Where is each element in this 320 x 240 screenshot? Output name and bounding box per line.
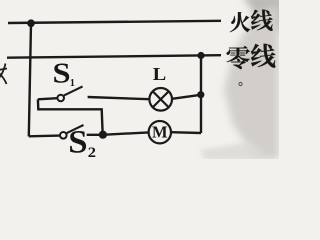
switch S1 lever	[64, 86, 83, 95]
page background	[0, 0, 279, 159]
junction dot on neutral line	[197, 52, 204, 59]
stray mark: small circle right side	[239, 82, 242, 85]
svg-text:S: S	[53, 58, 71, 89]
junction dot on live line	[27, 19, 35, 27]
label lingxian char xian	[251, 44, 276, 68]
wire: junction to motor M	[103, 132, 149, 134]
switch S2 contact circle	[60, 132, 67, 139]
svg-text:2: 2	[88, 145, 96, 159]
svg-text:M: M	[152, 123, 168, 142]
wire: S1 moving contact stub	[38, 98, 57, 99]
wire: lamp L to right vertical	[172, 95, 201, 99]
junction dot S1 bypass / S2 output	[99, 131, 107, 139]
switch S2 lever	[67, 125, 84, 133]
scan shadow top-right corner	[242, 0, 285, 34]
wire: S1 fixed contact to lamp L	[88, 97, 150, 99]
lamp L symbol (circle with X)	[149, 88, 172, 111]
scan mottling bottom	[200, 142, 266, 161]
wire: right vertical from neutral line	[200, 56, 202, 134]
wire: S2 fixed contact to junction	[87, 134, 103, 136]
label huoxian char xian	[251, 10, 273, 31]
scan shadow right diagonal band	[224, 5, 279, 159]
junction dot lamp branch / right vertical	[197, 91, 204, 98]
wire: motor M to right vertical	[171, 131, 201, 134]
svg-text:L: L	[153, 65, 166, 85]
label huoxian (live wire) char huo	[230, 12, 251, 32]
wire: left vertical feeder from live line	[29, 24, 31, 137]
stray mark: clipped character at left edge	[0, 64, 7, 85]
switch S1 contact circle	[57, 95, 64, 102]
wire: live line (huoxian)	[8, 21, 221, 23]
wire: S1 bypass down-right to S2 output junction	[38, 99, 103, 135]
svg-text:S: S	[68, 124, 87, 159]
wire: neutral line (lingxian)	[7, 55, 221, 58]
label lingxian (neutral wire) char ling	[227, 46, 250, 69]
motor M symbol (circle)	[149, 121, 171, 143]
svg-text:1: 1	[70, 78, 75, 89]
wire: bottom wire to switch S2	[29, 134, 60, 137]
